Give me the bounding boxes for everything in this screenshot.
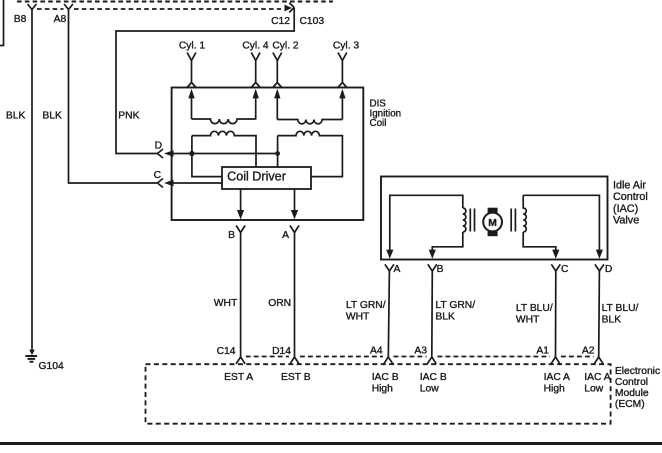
svg-text:WHT: WHT	[516, 315, 540, 326]
wire LT BLU/WHT to ECM A1	[555, 271, 557, 357]
svg-text:(IAC): (IAC)	[613, 203, 638, 215]
svg-text:A: A	[282, 230, 289, 241]
svg-text:Low: Low	[584, 383, 603, 394]
IAC coil (right)	[523, 195, 526, 232]
wire Cyl. 1	[187, 61, 196, 88]
svg-text:Control: Control	[615, 377, 648, 388]
ECM dashed box	[146, 364, 611, 424]
svg-text:B: B	[228, 230, 235, 241]
DIS ignition coil box	[172, 88, 364, 221]
IAC coil (left)	[463, 208, 466, 232]
wire coil driver output B	[237, 189, 244, 219]
core lines (left)	[470, 209, 474, 232]
connector ECM A2 flare	[594, 357, 603, 364]
wire ORN A to ECM D14	[294, 233, 296, 358]
svg-text:IAC A: IAC A	[544, 372, 570, 383]
svg-text:C103: C103	[300, 16, 325, 27]
connector IAC B flare	[428, 264, 437, 271]
wire Cyl. 3	[338, 61, 347, 88]
connector Cyl. 4	[251, 53, 260, 61]
motor M top brush	[488, 208, 498, 213]
IAC left coil low side to terminal B	[432, 232, 463, 252]
wire BLK from B8 to G104	[31, 10, 33, 351]
connector IAC C flare	[551, 264, 560, 271]
svg-text:C12: C12	[271, 16, 290, 27]
connector ECM D14 flare	[290, 357, 299, 364]
svg-text:Idle Air: Idle Air	[613, 180, 646, 192]
svg-text:BLK: BLK	[435, 312, 455, 323]
connector ECM A3 flare	[427, 357, 436, 364]
wire Cyl. 4	[251, 61, 260, 88]
connector ECM A4 flare	[384, 357, 393, 364]
coil driver U1	[222, 167, 311, 189]
svg-text:D: D	[605, 264, 612, 275]
svg-text:A4: A4	[370, 346, 383, 357]
svg-text:(ECM): (ECM)	[615, 399, 645, 410]
connector Cyl. 1	[187, 53, 196, 61]
svg-text:A1: A1	[536, 346, 549, 357]
connector IAC A flare	[385, 264, 394, 271]
svg-text:IAC B: IAC B	[420, 372, 447, 383]
connector A8	[64, 4, 73, 10]
connector Cyl. 3	[338, 53, 347, 61]
connector terminal C flare	[157, 179, 163, 188]
svg-text:High: High	[372, 383, 393, 394]
motor M	[483, 213, 502, 232]
wire Cyl. 2	[273, 61, 282, 88]
svg-text:M: M	[488, 218, 497, 229]
svg-text:IAC A: IAC A	[584, 372, 610, 383]
svg-text:BLK: BLK	[602, 315, 622, 326]
svg-text:BLK: BLK	[42, 111, 62, 122]
svg-text:LT GRN/: LT GRN/	[435, 300, 475, 311]
node C wire with arrow to coil driver	[164, 180, 222, 187]
svg-text:Coil: Coil	[370, 118, 387, 129]
IAC valve box	[381, 177, 608, 260]
wire LT GRN/WHT to ECM A4	[388, 271, 389, 357]
arrow IAC terminal D	[596, 250, 603, 259]
svg-text:Cyl. 1: Cyl. 1	[179, 41, 206, 52]
svg-text:Cyl. 3: Cyl. 3	[333, 41, 360, 52]
svg-text:LT BLU/: LT BLU/	[516, 303, 553, 314]
secondary winding (left), coil 1/4	[192, 119, 256, 124]
svg-text:IAC B: IAC B	[372, 372, 399, 383]
svg-text:PNK: PNK	[118, 111, 139, 122]
primary winding (left)	[192, 131, 256, 167]
ground G104	[25, 356, 37, 362]
svg-text:Coil Driver: Coil Driver	[227, 170, 286, 184]
wire primary-right high side down to coil driver	[277, 136, 279, 167]
connector IAC D flare	[595, 264, 604, 271]
svg-text:C: C	[561, 264, 569, 275]
connector terminal D flare	[157, 149, 163, 158]
connector terminal B flare	[236, 226, 245, 233]
IAC right loop wire	[523, 195, 599, 251]
junction dot on D bus (right primary)	[275, 151, 280, 156]
svg-text:G104: G104	[39, 361, 64, 372]
IAC left loop wire	[390, 195, 463, 251]
spark output arrows (4) inside DIS box top	[188, 89, 345, 120]
svg-text:A8: A8	[54, 14, 67, 25]
svg-text:Valve: Valve	[613, 215, 639, 227]
arrow IAC terminal A	[386, 250, 393, 259]
connector Cyl. 2	[273, 53, 282, 61]
wire LT BLU/BLK to ECM A2	[598, 271, 601, 357]
motor M bottom brush	[488, 231, 498, 236]
svg-text:Low: Low	[420, 383, 439, 394]
svg-text:Cyl. 4: Cyl. 4	[242, 41, 269, 52]
svg-text:LT BLU/: LT BLU/	[602, 303, 639, 314]
svg-text:B: B	[437, 264, 444, 275]
dashed connector line to C12	[37, 8, 281, 10]
wire BLK from A8 to terminal C	[69, 10, 158, 184]
svg-text:A: A	[394, 264, 401, 275]
bottom page rule	[0, 442, 662, 445]
svg-text:WHT: WHT	[214, 298, 238, 309]
dashed harness line (top)	[17, 0, 333, 2]
ground arrow	[29, 350, 35, 356]
svg-text:D: D	[155, 141, 162, 152]
wire WHT B to ECM C14	[240, 233, 242, 358]
wire LT GRN/BLK to ECM A3	[431, 271, 434, 357]
svg-text:A2: A2	[582, 346, 595, 357]
svg-text:LT GRN/: LT GRN/	[346, 300, 386, 311]
svg-text:Cyl. 2: Cyl. 2	[272, 41, 299, 52]
svg-text:D14: D14	[272, 346, 291, 357]
connector B8	[28, 4, 37, 10]
wire primary-left low side to coil driver	[192, 136, 222, 177]
svg-text:B8: B8	[14, 14, 27, 25]
svg-text:BLK: BLK	[6, 111, 26, 122]
secondary winding (right), coil 2/3	[277, 120, 342, 124]
svg-text:C14: C14	[217, 346, 236, 357]
wire PNK from C12 to terminal D	[116, 8, 294, 154]
svg-text:High: High	[544, 383, 565, 394]
connector ECM C14 flare	[236, 357, 245, 364]
svg-text:Control: Control	[613, 191, 648, 203]
arrow IAC terminal C	[552, 250, 559, 259]
arrow into C12	[285, 5, 293, 12]
connector terminal A flare	[290, 226, 299, 233]
svg-text:EST A: EST A	[224, 372, 253, 383]
svg-text:EST B: EST B	[281, 372, 311, 383]
svg-text:C: C	[154, 170, 162, 181]
core lines (right)	[511, 209, 515, 232]
svg-text:Electronic: Electronic	[615, 366, 660, 377]
svg-text:ORN: ORN	[268, 298, 291, 309]
arrow IAC terminal B	[429, 250, 436, 259]
node D bus wire with arrow	[164, 150, 278, 157]
wire coil driver output A	[291, 189, 298, 219]
wire cut-off at left edge	[0, 0, 4, 46]
dashed ECM connector face	[246, 356, 594, 358]
svg-text:WHT: WHT	[346, 312, 370, 323]
primary winding (right)	[278, 131, 343, 176]
IAC right coil low side to terminal C	[523, 232, 556, 252]
junction dot on D bus (left primary)	[189, 151, 194, 156]
connector C12/C103	[289, 3, 294, 13]
svg-text:A3: A3	[414, 346, 427, 357]
connector ECM A1 flare	[551, 357, 560, 364]
svg-text:Module: Module	[615, 388, 649, 399]
